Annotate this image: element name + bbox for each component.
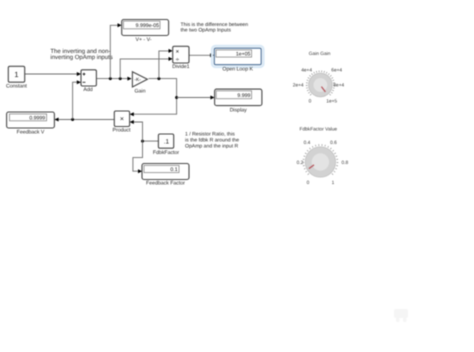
display Display — [215, 89, 262, 114]
wire: junction down to Feedback Factor display — [133, 141, 143, 173]
svg-text:÷: ÷ — [176, 56, 180, 63]
annotation: resistor ratio note — [185, 132, 239, 150]
wire: Add output to Gain — [96, 77, 131, 81]
display Feedback Factor — [142, 164, 189, 187]
svg-text:the two OpAmp Inputs: the two OpAmp Inputs — [181, 28, 232, 34]
watermark blob bottom right — [394, 309, 408, 322]
wire: branch up to V+ - V- display — [110, 23, 121, 78]
svg-text:2e+4: 2e+4 — [293, 82, 304, 88]
sum block Add — [81, 70, 96, 93]
svg-text:0.9999: 0.9999 — [29, 116, 45, 122]
svg-text:Open Loop K: Open Loop K — [222, 67, 253, 73]
svg-text:Display: Display — [230, 108, 247, 114]
constant FdbkFactor — [153, 134, 180, 156]
svg-text:FdbkFactor: FdbkFactor — [153, 150, 180, 156]
svg-text:0.8: 0.8 — [341, 160, 348, 166]
wire: branch right to Display — [177, 96, 215, 100]
wire: junction up into Add minus input — [73, 80, 81, 119]
node: junction on down-line to Display — [175, 96, 178, 99]
display V+ - V- — [122, 20, 169, 44]
wire: Constant to Add — [25, 72, 81, 76]
svg-text:-K-: -K- — [134, 77, 141, 83]
knob Gain Gain scale labels — [293, 67, 345, 104]
svg-text:4e+4: 4e+4 — [301, 67, 312, 73]
divide block Divide1 — [172, 46, 189, 70]
node: junction on add-out to V display — [109, 77, 112, 80]
svg-text:0: 0 — [309, 98, 312, 104]
svg-text:FdbkFactor Value: FdbkFactor Value — [300, 127, 338, 133]
knob FdbkFactor Value body — [305, 147, 335, 177]
node: junction feedback to Add — [71, 118, 74, 121]
svg-text:1: 1 — [332, 180, 335, 186]
svg-text:OpAmp and the input R: OpAmp and the input R — [185, 144, 239, 150]
svg-text:6e+4: 6e+4 — [331, 67, 342, 73]
svg-text:Gain Gain: Gain Gain — [309, 51, 331, 57]
gain Gain — [132, 72, 147, 95]
svg-text:9.999: 9.999 — [237, 93, 250, 99]
svg-text:.1: .1 — [164, 138, 170, 145]
svg-text:0.6: 0.6 — [330, 140, 337, 146]
svg-text:1e+5: 1e+5 — [326, 98, 337, 104]
wire: junction up into Product second input — [130, 120, 143, 141]
knob FdbkFactor Value scale labels — [297, 140, 349, 186]
svg-text:1: 1 — [14, 70, 18, 79]
knob Gain Gain needle — [321, 87, 325, 92]
arrowhead into Product first input — [130, 112, 134, 116]
wire: FdbkFactor output left to junction — [143, 140, 159, 142]
svg-text:0.1: 0.1 — [170, 167, 177, 173]
knob Gain Gain ticks — [306, 71, 335, 96]
wire: Gain output to corner and down — [133, 79, 176, 115]
display Feedback V (flipped) — [7, 112, 55, 136]
display Open Loop K (selected) — [212, 46, 264, 73]
wire: Product output to Feedback V and Add — [59, 119, 115, 121]
svg-text:×: × — [120, 116, 124, 123]
svg-text:0: 0 — [307, 180, 310, 186]
svg-text:Product: Product — [113, 127, 131, 133]
svg-text:9.999e-05: 9.999e-05 — [136, 23, 159, 29]
annotation: difference note — [181, 22, 249, 34]
svg-text:0.4: 0.4 — [304, 140, 311, 146]
svg-text:V+ - V-: V+ - V- — [135, 37, 151, 43]
wire: Divide1 output to Open Loop K — [189, 53, 214, 57]
node: junction gain-out to Divide1 numerator — [157, 77, 160, 80]
constant Constant — [6, 66, 27, 89]
node: junction below product — [141, 140, 144, 143]
svg-text:Gain: Gain — [135, 88, 146, 94]
annotation: inverting inputs note — [50, 48, 112, 61]
svg-text:1e+05: 1e+05 — [236, 52, 251, 58]
svg-text:Feedback Factor: Feedback Factor — [146, 181, 185, 187]
svg-text:8e+4: 8e+4 — [333, 82, 344, 88]
svg-text:0.2: 0.2 — [297, 160, 304, 166]
knob Gain Gain body — [309, 73, 333, 97]
arrowhead into Feedback V (flipped) — [54, 118, 58, 122]
svg-text:×: × — [176, 48, 180, 55]
knob FdbkFactor Value ticks — [303, 144, 339, 175]
svg-text:Divide1: Divide1 — [172, 64, 189, 70]
wire: branch up to Divide1 numerator input — [159, 49, 173, 79]
svg-text:Add: Add — [83, 87, 92, 93]
product block Product — [113, 111, 131, 133]
node: junction on add-out to Divide1 divisor — [119, 77, 122, 80]
svg-text:inverting OpAmp inputs: inverting OpAmp inputs — [50, 54, 112, 61]
svg-text:Feedback V: Feedback V — [17, 130, 45, 136]
svg-text:Constant: Constant — [6, 83, 27, 89]
wire: branch up to Divide1 divisor input — [120, 57, 173, 79]
knob FdbkFactor Value needle — [309, 165, 314, 169]
